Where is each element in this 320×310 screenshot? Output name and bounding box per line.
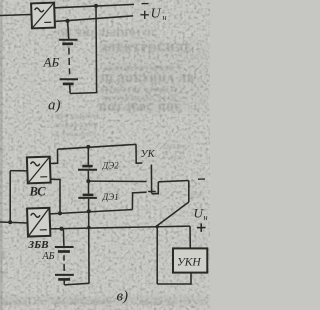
rectifier box U-a (31, 3, 55, 29)
svg-text:U: U (151, 7, 162, 22)
wire minus bus (158, 181, 189, 182)
node dot line A (86, 145, 90, 149)
wire battery bottom lead a (69, 84, 71, 94)
wire BC input (10, 170, 27, 172)
wire line B (88, 180, 146, 182)
ghost bleed-through text (decorative) (0, 28, 203, 307)
svg-text:ОВ ЧИСЛЕННОГОС: ОВ ЧИСЛЕННОГОС (57, 28, 159, 38)
scan specks (decorative) (11, 10, 200, 272)
wire AB bottom lead v (63, 280, 65, 285)
wire AB top lead v (62, 229, 65, 246)
wire UKN bottom loop (157, 273, 191, 284)
wire minus bus drop (188, 181, 190, 203)
box UKN (173, 248, 207, 272)
node dot AB top v (60, 227, 64, 231)
wire right vertical a (95, 6, 98, 93)
svg-text:АБ: АБ (43, 55, 60, 70)
wire BC top out (50, 149, 57, 163)
label minus v (198, 178, 205, 180)
svg-text:АБ: АБ (42, 251, 55, 262)
svg-text:ДЭ2: ДЭ2 (102, 161, 120, 171)
battery AB (fig v) (55, 246, 74, 248)
svg-text:УК: УК (141, 149, 156, 160)
svg-text:ДЭ1: ДЭ1 (102, 192, 119, 202)
svg-text:а): а) (48, 98, 61, 114)
battery AB (fig a) (59, 40, 78, 84)
wire line C riser (132, 192, 146, 209)
wire input v (0, 222, 28, 223)
converter box ZBV (27, 208, 50, 237)
scan left edge shade (0, 0, 3, 310)
wire line A contact end (136, 144, 142, 163)
wire BC bottom out and drop (50, 179, 60, 213)
svg-text:ВС: ВС (29, 185, 47, 199)
converter box BC (27, 157, 51, 184)
label plus v (197, 223, 206, 232)
switch UK crossbar (148, 191, 156, 193)
wire minus vertical (156, 226, 158, 284)
wire out bottom a (55, 16, 134, 22)
svg-text:И: И (0, 270, 7, 279)
wire input a (0, 15, 31, 16)
node dot line C mid (87, 209, 91, 213)
node dot DE1-DE2 (86, 179, 90, 183)
svg-text:н: н (163, 13, 167, 22)
wire bottom rail a (70, 92, 97, 95)
svg-text:З: З (0, 252, 6, 262)
node blob line2 x157 (156, 225, 159, 228)
node dot input v (8, 220, 12, 224)
wire DE2 top lead (87, 147, 89, 165)
node dot line C left (58, 211, 62, 215)
wire blade jog (152, 182, 159, 194)
cell DE2 (82, 165, 92, 168)
svg-text:клиговых: клиговых (55, 129, 96, 138)
wire line C (50, 210, 132, 214)
svg-text:щи: щи (190, 189, 203, 198)
node blob line2 x89 (87, 226, 90, 229)
label minus output a (142, 3, 149, 5)
svg-text:ЗБВ: ЗБВ (28, 239, 49, 251)
wire out top a (55, 4, 135, 7)
wire line A (58, 144, 137, 149)
wire DE1 top lead (88, 181, 90, 194)
wire battery top lead a (68, 21, 69, 40)
svg-text:предприят: предприят (55, 111, 100, 120)
svg-text:водородна: водородна (55, 120, 99, 129)
cell DE1 (83, 194, 94, 197)
svg-text:НОВУ: НОВУ (163, 142, 189, 151)
svg-text:в): в) (117, 289, 129, 305)
node junction top a (94, 4, 98, 8)
wire diagonal (157, 202, 189, 226)
wire left riser v (9, 171, 11, 223)
svg-text:УКН: УКН (177, 257, 201, 269)
svg-text:н: н (204, 213, 208, 222)
wire AB bottom rail v (64, 283, 89, 285)
switch UK blade (150, 165, 152, 194)
svg-text:ОН: ОН (170, 153, 184, 162)
faint mottle bands (0, 42, 210, 305)
wire line 2 plus bus (50, 226, 190, 229)
wire DE1 long bottom lead (88, 199, 90, 284)
node junction bottom a (66, 19, 70, 23)
wire plus bus drop (189, 226, 191, 248)
wire DE2 bottom lead (87, 171, 89, 181)
label plus output a (141, 11, 149, 19)
